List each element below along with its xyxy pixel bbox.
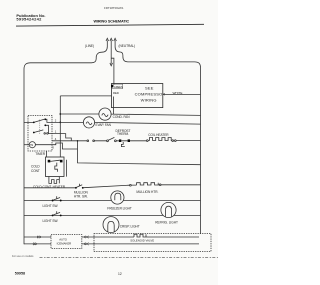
svg-text:2: 2 — [55, 118, 57, 122]
wire ground prong conductor — [110, 41, 113, 66]
svg-text:WIRING SCHEMATIC: WIRING SCHEMATIC — [94, 20, 130, 24]
label MULLION HTR. SW. — [74, 190, 89, 198]
svg-text:COIL HEATER: COIL HEATER — [148, 133, 169, 137]
lamp refrigerator light — [161, 202, 176, 217]
svg-text:MULLION HTR.: MULLION HTR. — [136, 190, 158, 194]
svg-text:SOLENOID VALVE: SOLENOID VALVE — [130, 239, 154, 243]
timer switch contact lower — [33, 130, 52, 134]
motor condenser fan — [99, 108, 111, 120]
connector defrost to rail — [172, 140, 174, 142]
wire evaporator fan circuit (timer terminal 2) — [52, 122, 201, 124]
compressor box text — [135, 86, 166, 103]
wire condenser fan circuit — [60, 114, 200, 115]
label DEFROST THERM. — [116, 129, 131, 136]
svg-text:CONT: CONT — [31, 169, 40, 173]
svg-text:HTR. SW.: HTR. SW. — [74, 194, 88, 198]
label AUTO ICEMAKER — [57, 237, 72, 245]
svg-text:COLD CONT. HEATER: COLD CONT. HEATER — [33, 185, 66, 189]
timer switch contact upper — [24, 118, 52, 133]
label COLD CONT — [31, 164, 40, 172]
refrigerator light switch — [52, 211, 62, 216]
svg-text:WIRING: WIRING — [141, 98, 157, 103]
node junction defrost to lamp feed — [77, 140, 79, 142]
wire cold control right side — [65, 160, 67, 177]
svg-text:THERM.: THERM. — [117, 132, 129, 136]
lamp crisper light — [103, 217, 119, 233]
svg-text:GREEN: GREEN — [114, 86, 123, 89]
wire refrigerator light circuit — [24, 214, 201, 216]
wire cold control feed stub — [46, 151, 48, 157]
svg-text:REFRIG. LIGHT: REFRIG. LIGHT — [155, 220, 178, 224]
cold control capillary — [55, 163, 58, 172]
svg-text:SEE: SEE — [145, 86, 154, 91]
defrost termination switch — [107, 137, 117, 141]
svg-text:12: 12 — [118, 272, 122, 276]
svg-text:FRT18TRGW1: FRT18TRGW1 — [104, 6, 124, 10]
mullion heater switch — [75, 184, 84, 189]
connector mullion left — [130, 184, 132, 186]
svg-text:TM: TM — [30, 145, 33, 147]
wire red compressor feed — [60, 95, 111, 97]
resistor cold control heater — [49, 177, 59, 184]
header publication number text — [16, 13, 45, 22]
header rule — [16, 24, 204, 26]
wire timer pin3 to lamp feed — [35, 141, 200, 165]
svg-text:5995424242: 5995424242 — [16, 17, 42, 22]
wire freezer light circuit — [24, 200, 201, 202]
svg-text:59958: 59958 — [15, 272, 25, 276]
node junction evap fan — [59, 122, 61, 124]
connector defrost coil left — [146, 140, 148, 142]
wire icemaker to water valve lower — [82, 243, 199, 245]
svg-text:LIGHT SW.: LIGHT SW. — [43, 204, 59, 208]
svg-text:3: 3 — [52, 146, 54, 150]
svg-text:WHITE: WHITE — [173, 91, 183, 95]
connector pair defrost — [87, 140, 94, 142]
icemaker dashed box — [51, 235, 82, 249]
timer cam linkage dashed — [39, 120, 41, 135]
wire green ground to compressor — [111, 58, 114, 85]
cold control terminals — [48, 160, 63, 163]
freezer light switch — [52, 196, 62, 201]
wire neutral conductor to right rail — [115, 41, 200, 234]
wire icemaker feed lower — [24, 243, 51, 245]
wire timer pin4 — [52, 140, 71, 142]
terminal GREEN label — [111, 84, 123, 89]
motor evaporator fan — [83, 117, 94, 128]
solenoid water valve coil — [134, 234, 199, 237]
water valve dashed box — [94, 234, 211, 252]
power cord plug arrows — [106, 38, 116, 41]
wire icemaker feed upper — [24, 236, 51, 238]
svg-text:1: 1 — [55, 130, 57, 134]
wire mullion heater circuit — [24, 185, 201, 188]
timer motor TM — [24, 142, 35, 148]
lamp freezer light — [111, 191, 124, 204]
svg-text:COND. FAN: COND. FAN — [113, 115, 131, 119]
svg-text:COLD: COLD — [31, 164, 40, 168]
resistor defrost coil heater — [150, 138, 172, 141]
svg-text:FREEZER LIGHT: FREEZER LIGHT — [107, 206, 132, 210]
node junction cond fan — [59, 113, 61, 115]
connector mullion right — [159, 184, 161, 186]
wire compressor run stub — [113, 97, 115, 115]
wire trunk vertical — [59, 96, 61, 157]
wire icemaker to water valve upper — [82, 236, 134, 238]
svg-text:For use on models: For use on models — [12, 254, 34, 258]
wire timer pin1 staircase to defrost — [52, 134, 71, 141]
svg-text:CRISP. LIGHT: CRISP. LIGHT — [120, 225, 140, 229]
resistor mullion heater — [137, 183, 159, 185]
svg-text:RED: RED — [113, 91, 119, 95]
svg-text:TIMER: TIMER — [35, 152, 45, 156]
defrost thermostat terminals — [119, 139, 130, 146]
svg-text:ICEMAKER: ICEMAKER — [57, 242, 72, 246]
defrost timer dashed box — [28, 116, 52, 152]
svg-text:EVAP. FAN: EVAP. FAN — [96, 123, 112, 127]
bottom dashed rule — [40, 257, 219, 259]
cold control box — [46, 157, 65, 177]
wire line conductor to left rail — [24, 41, 107, 245]
compressor box U1 — [112, 84, 163, 108]
svg-text:LIGHT SW.: LIGHT SW. — [43, 219, 59, 223]
wire defrost heater circuit — [71, 140, 200, 142]
wire white compressor to right rail — [163, 94, 201, 96]
svg-text:COMPRESSOR: COMPRESSOR — [135, 92, 166, 97]
svg-text:(LINE): (LINE) — [85, 44, 94, 48]
svg-text:(NEUTRAL): (NEUTRAL) — [119, 44, 136, 48]
